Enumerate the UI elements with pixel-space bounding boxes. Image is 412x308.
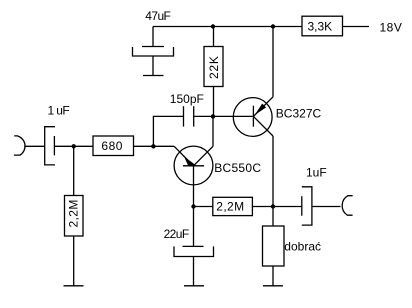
node emitter junction xyxy=(191,204,195,208)
svg-text:3,3K: 3,3K xyxy=(307,20,332,34)
ground dobrac xyxy=(263,285,283,287)
ground 47uF xyxy=(143,75,164,77)
resistor 2,2M feedback xyxy=(194,197,274,215)
svg-text:18V: 18V xyxy=(380,20,403,34)
node collector junction xyxy=(211,114,215,118)
resistor 680 xyxy=(93,136,153,156)
svg-text:2,2M: 2,2M xyxy=(216,199,244,213)
svg-text:BC327C: BC327C xyxy=(276,107,322,121)
svg-text:150pF: 150pF xyxy=(170,92,204,106)
svg-text:22uF: 22uF xyxy=(164,227,189,241)
wire input to cap xyxy=(24,145,44,147)
node 22K top junction xyxy=(211,24,215,28)
transistor Q BC327C xyxy=(233,27,273,207)
node input junction xyxy=(72,144,76,148)
svg-text:BC550C: BC550C xyxy=(214,161,261,175)
output jack connector xyxy=(342,196,352,216)
wire input junction to 680 xyxy=(74,145,93,147)
svg-text:1 uF: 1 uF xyxy=(48,104,70,118)
svg-text:1uF: 1uF xyxy=(306,165,327,179)
node BC327C emitter junction xyxy=(271,24,275,28)
ground input xyxy=(64,285,84,287)
svg-text:47uF: 47uF xyxy=(145,9,170,23)
capacitor C 47uF xyxy=(133,27,174,76)
capacitor C 22uF xyxy=(174,207,214,286)
transistor Q BC550C xyxy=(153,116,213,206)
wire top supply rail xyxy=(153,26,302,28)
node output junction xyxy=(271,204,275,208)
svg-text:2,2M: 2,2M xyxy=(67,199,81,227)
resistor 22K xyxy=(204,27,223,117)
capacitor C 1uF input xyxy=(45,127,74,165)
svg-text:dobrać: dobrać xyxy=(284,240,321,254)
resistor dobrac xyxy=(263,207,285,286)
capacitor C 150pF xyxy=(184,106,194,126)
svg-text:22K: 22K xyxy=(207,55,221,79)
wire 150pF right to node xyxy=(194,115,253,117)
wire 150pF left branch xyxy=(153,116,183,146)
input jack connector xyxy=(14,136,25,155)
svg-text:680: 680 xyxy=(101,139,123,153)
capacitor C 1uF output xyxy=(273,187,341,225)
resistor 2,2M input xyxy=(65,146,84,285)
ground 22uF xyxy=(184,285,204,287)
resistor 3,3K xyxy=(302,16,369,36)
node base junction xyxy=(151,144,155,148)
